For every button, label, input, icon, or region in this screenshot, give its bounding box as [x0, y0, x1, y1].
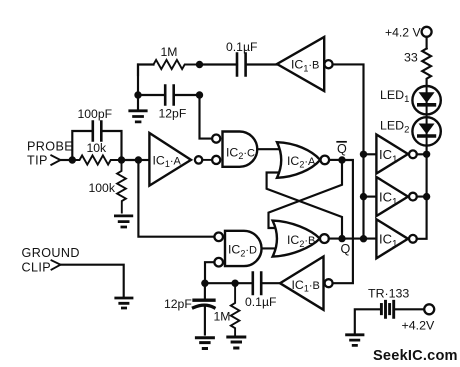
- ground below 1M bottom: [228, 337, 245, 348]
- node top junction D: [196, 61, 203, 68]
- svg-text:CLIP: CLIP: [22, 260, 52, 274]
- node top IC1 input junction: [360, 151, 367, 158]
- svg-text:12pF: 12pF: [164, 297, 192, 311]
- capacitor 0.1uF top plates: [237, 54, 246, 76]
- wire IC1 outputs to LED rail: [417, 154, 427, 239]
- IC1-B bottom input bubble: [325, 279, 333, 287]
- ground below battery: [347, 335, 363, 346]
- wire top line left: [138, 65, 154, 76]
- IC2-A output bubble: [321, 156, 330, 165]
- node Q label: [341, 242, 351, 256]
- capacitor 0.1uF bottom plates: [253, 273, 261, 295]
- wire cross-couple A from Qbar: [269, 160, 343, 228]
- ground below 12pF bottom: [196, 338, 213, 349]
- IC2-C input bubble bottom: [212, 156, 220, 164]
- IC2-C input bubble top: [212, 135, 220, 143]
- svg-text:PROBE: PROBE: [27, 140, 73, 154]
- node LED rail junction middle: [423, 193, 430, 200]
- wire cap to junction G: [205, 282, 253, 284]
- wire IC2-C output: [257, 148, 281, 150]
- svg-text:LED1: LED1: [380, 88, 409, 105]
- battery TR-133 cells: [380, 305, 383, 314]
- wire left vertical 1M to 12pF junction: [137, 65, 139, 96]
- node junction B: [118, 156, 125, 163]
- wire LED rail upper: [426, 146, 428, 197]
- node junction H: [231, 280, 238, 287]
- wire Qbar to bottom IC1-B input: [333, 160, 353, 283]
- gate IC2-C (NAND): [223, 132, 258, 167]
- resistor 1M bottom: [231, 283, 240, 336]
- wire IC1-B bottom apex to cap: [261, 282, 280, 284]
- node middle IC1 input junction: [360, 193, 367, 200]
- node junction F: [196, 91, 203, 98]
- gate IC2-D (NAND): [225, 231, 262, 266]
- ground below clip wire: [116, 298, 132, 308]
- wire junction G down: [204, 283, 206, 299]
- LED2 label: [380, 118, 409, 135]
- IC1-A output bubble: [195, 156, 202, 163]
- LED1: [412, 86, 440, 114]
- svg-text:33: 33: [404, 51, 418, 65]
- wire 12pF left: [138, 94, 165, 96]
- node Q junction left: [338, 235, 345, 242]
- capacitor 100pF plates: [93, 122, 102, 141]
- inverter IC1-B top: [277, 37, 324, 91]
- svg-text:+4.2 V: +4.2 V: [385, 25, 421, 39]
- wire battery left to ground: [355, 309, 381, 333]
- wire IC2-D output: [262, 247, 278, 249]
- svg-text:12pF: 12pF: [159, 107, 187, 121]
- wire cross-couple B from Q: [267, 173, 342, 239]
- node GROUND CLIP label: [22, 246, 80, 274]
- wire ground clip to ground: [61, 265, 124, 297]
- svg-text:TIP: TIP: [27, 154, 48, 168]
- wire junction F down to IC2-C input: [200, 95, 212, 139]
- node junction G: [201, 280, 208, 287]
- node Qbar junction: [338, 156, 345, 163]
- inverter IC1-B bottom: [280, 257, 324, 310]
- node probe junction A: [69, 156, 76, 163]
- wire junction E stub: [137, 95, 139, 110]
- wire to IC1-A input: [138, 159, 149, 161]
- op-amp IC1-A: [149, 133, 191, 186]
- svg-text:100k: 100k: [89, 181, 116, 195]
- svg-text:+4.2V: +4.2V: [402, 318, 435, 332]
- resistor 33: [422, 49, 431, 87]
- ground clip arrow: [52, 260, 61, 269]
- svg-text:0.1µF: 0.1µF: [226, 40, 257, 54]
- IC1 middle output bubble: [409, 193, 417, 201]
- IC2-B output bubble: [320, 234, 329, 243]
- svg-text:LED2: LED2: [380, 118, 409, 135]
- svg-text:100pF: 100pF: [78, 107, 113, 121]
- wire Qbar line: [329, 159, 342, 161]
- wire Q line: [329, 238, 377, 240]
- wire 100pF branch left: [72, 131, 93, 160]
- watermark SeekIC.com: [373, 348, 458, 364]
- svg-text:Q: Q: [341, 242, 351, 256]
- wire IC1-B top bubble to right vertical: [333, 64, 364, 238]
- wire top line to 0.1uF: [200, 63, 238, 65]
- power terminal circle bottom: [424, 304, 434, 314]
- node junction E: [134, 91, 141, 98]
- wire terminal to 33 resistor: [426, 37, 428, 49]
- wire 12pF right: [174, 94, 200, 96]
- resistor 100k: [117, 160, 126, 213]
- wire junction C down to IC2-D: [138, 160, 214, 237]
- svg-text:1M: 1M: [161, 45, 178, 59]
- IC1-B top input bubble: [324, 60, 332, 68]
- gate IC2-A (NOR): [277, 142, 320, 178]
- node Qbar label: [337, 142, 347, 156]
- wire middle IC1 input: [364, 196, 377, 198]
- svg-text:Q: Q: [337, 142, 347, 156]
- svg-text:TR·133: TR·133: [368, 286, 409, 300]
- node PROBE TIP label: [27, 140, 73, 168]
- ground below 100k: [115, 216, 131, 227]
- power terminal circle top: [422, 27, 432, 37]
- svg-text:GROUND: GROUND: [22, 246, 80, 260]
- node Q junction right: [360, 235, 367, 242]
- inverter IC1 top right: [376, 135, 408, 174]
- node LED rail junction top: [423, 151, 430, 158]
- svg-text:SeekIC.com: SeekIC.com: [373, 348, 458, 364]
- capacitor 12pF top plates: [165, 86, 174, 105]
- IC1 bottom output bubble: [409, 235, 417, 243]
- wire battery right to terminal: [394, 308, 425, 310]
- wire 0.1uF to IC1-B apex: [246, 63, 277, 65]
- inverter IC1 bottom right: [376, 219, 408, 258]
- wire 100pF branch right: [101, 131, 121, 160]
- wire top IC1 input: [364, 153, 377, 155]
- IC1 top output bubble: [409, 150, 417, 158]
- svg-text:1M: 1M: [214, 309, 231, 323]
- IC2-D input bubble bottom: [214, 258, 223, 267]
- node junction C: [135, 156, 142, 163]
- capacitor 12pF bottom plates: [194, 300, 215, 307]
- resistor 10k: [72, 155, 121, 164]
- wire IC2-D lower input: [205, 262, 214, 283]
- wire bubble to bubble: [202, 159, 212, 161]
- ground below junction E: [130, 111, 146, 122]
- resistor 1M top: [154, 60, 200, 69]
- probe tip arrow: [51, 155, 60, 165]
- wire probe tip to junction: [60, 159, 72, 161]
- gate IC2-B (NOR): [273, 221, 320, 257]
- inverter IC1 middle right: [376, 177, 408, 216]
- IC2-D input bubble top: [214, 233, 223, 242]
- svg-text:10k: 10k: [87, 141, 108, 155]
- wire junction B to C: [122, 159, 139, 161]
- LED1 label: [380, 88, 409, 105]
- wire 12pF bottom to ground: [204, 307, 206, 335]
- svg-text:0.1µF: 0.1µF: [245, 295, 276, 309]
- LED2: [412, 117, 440, 145]
